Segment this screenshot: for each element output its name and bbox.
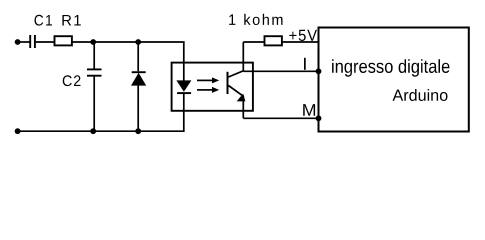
- wire I line: [243, 70, 318, 72]
- node junction bottom D1: [135, 128, 141, 134]
- label +5V: [289, 30, 317, 41]
- Arduino box: [319, 28, 469, 132]
- label Arduino: [393, 89, 448, 101]
- capacitor C2: [87, 69, 102, 75]
- wire D1 top: [137, 42, 139, 71]
- optocoupler U1 box: [172, 63, 253, 111]
- capacitor C1: [30, 35, 35, 48]
- node junction top D1: [135, 39, 141, 45]
- wire collector corner to resistor R2: [243, 41, 264, 43]
- label ingresso digitale: [332, 59, 449, 77]
- label C2: [63, 75, 81, 86]
- wire C2 bottom: [93, 76, 95, 132]
- phototransistor Q1 collector: [228, 42, 243, 77]
- wire D1 bottom: [137, 85, 139, 131]
- phototransistor Q1 emitter: [228, 86, 243, 119]
- label I: [304, 58, 306, 70]
- node junction bottom C2: [90, 128, 96, 134]
- bottom rail wire: [18, 111, 184, 131]
- phototransistor Q1 base bar: [227, 72, 229, 94]
- opto LED triangle (pointing down): [176, 80, 191, 91]
- resistor R2 1 kohm: [265, 36, 282, 45]
- diode D1 cathode bar: [132, 71, 146, 73]
- label M: [303, 104, 315, 116]
- wire top rail: terminal to C1: [18, 41, 30, 43]
- label 1 kohm: [229, 14, 282, 25]
- light arrow 2: [197, 87, 219, 93]
- opto LED cathode wire: [183, 93, 185, 111]
- label C1: [35, 15, 53, 26]
- node M terminal: [316, 115, 322, 121]
- wire M line: [243, 117, 318, 119]
- phototransistor Q1 emitter arrow: [237, 94, 246, 102]
- opto LED anode wire: [183, 63, 185, 81]
- opto LED cathode bar: [177, 92, 191, 94]
- wire C1 to R1: [36, 41, 54, 43]
- terminal top-left: [15, 39, 21, 45]
- wire R1 to opto corner (top rail): [72, 42, 184, 62]
- terminal bottom-left: [15, 128, 21, 134]
- resistor R1: [55, 36, 72, 45]
- label R1: [62, 15, 80, 26]
- diode D1 anode triangle (pointing up): [131, 73, 146, 86]
- wire R2 to +5V terminal: [283, 41, 319, 43]
- light arrow 1: [197, 77, 219, 83]
- node I terminal: [316, 68, 322, 74]
- wire C2 top: [93, 42, 95, 69]
- node junction top C2: [90, 39, 96, 45]
